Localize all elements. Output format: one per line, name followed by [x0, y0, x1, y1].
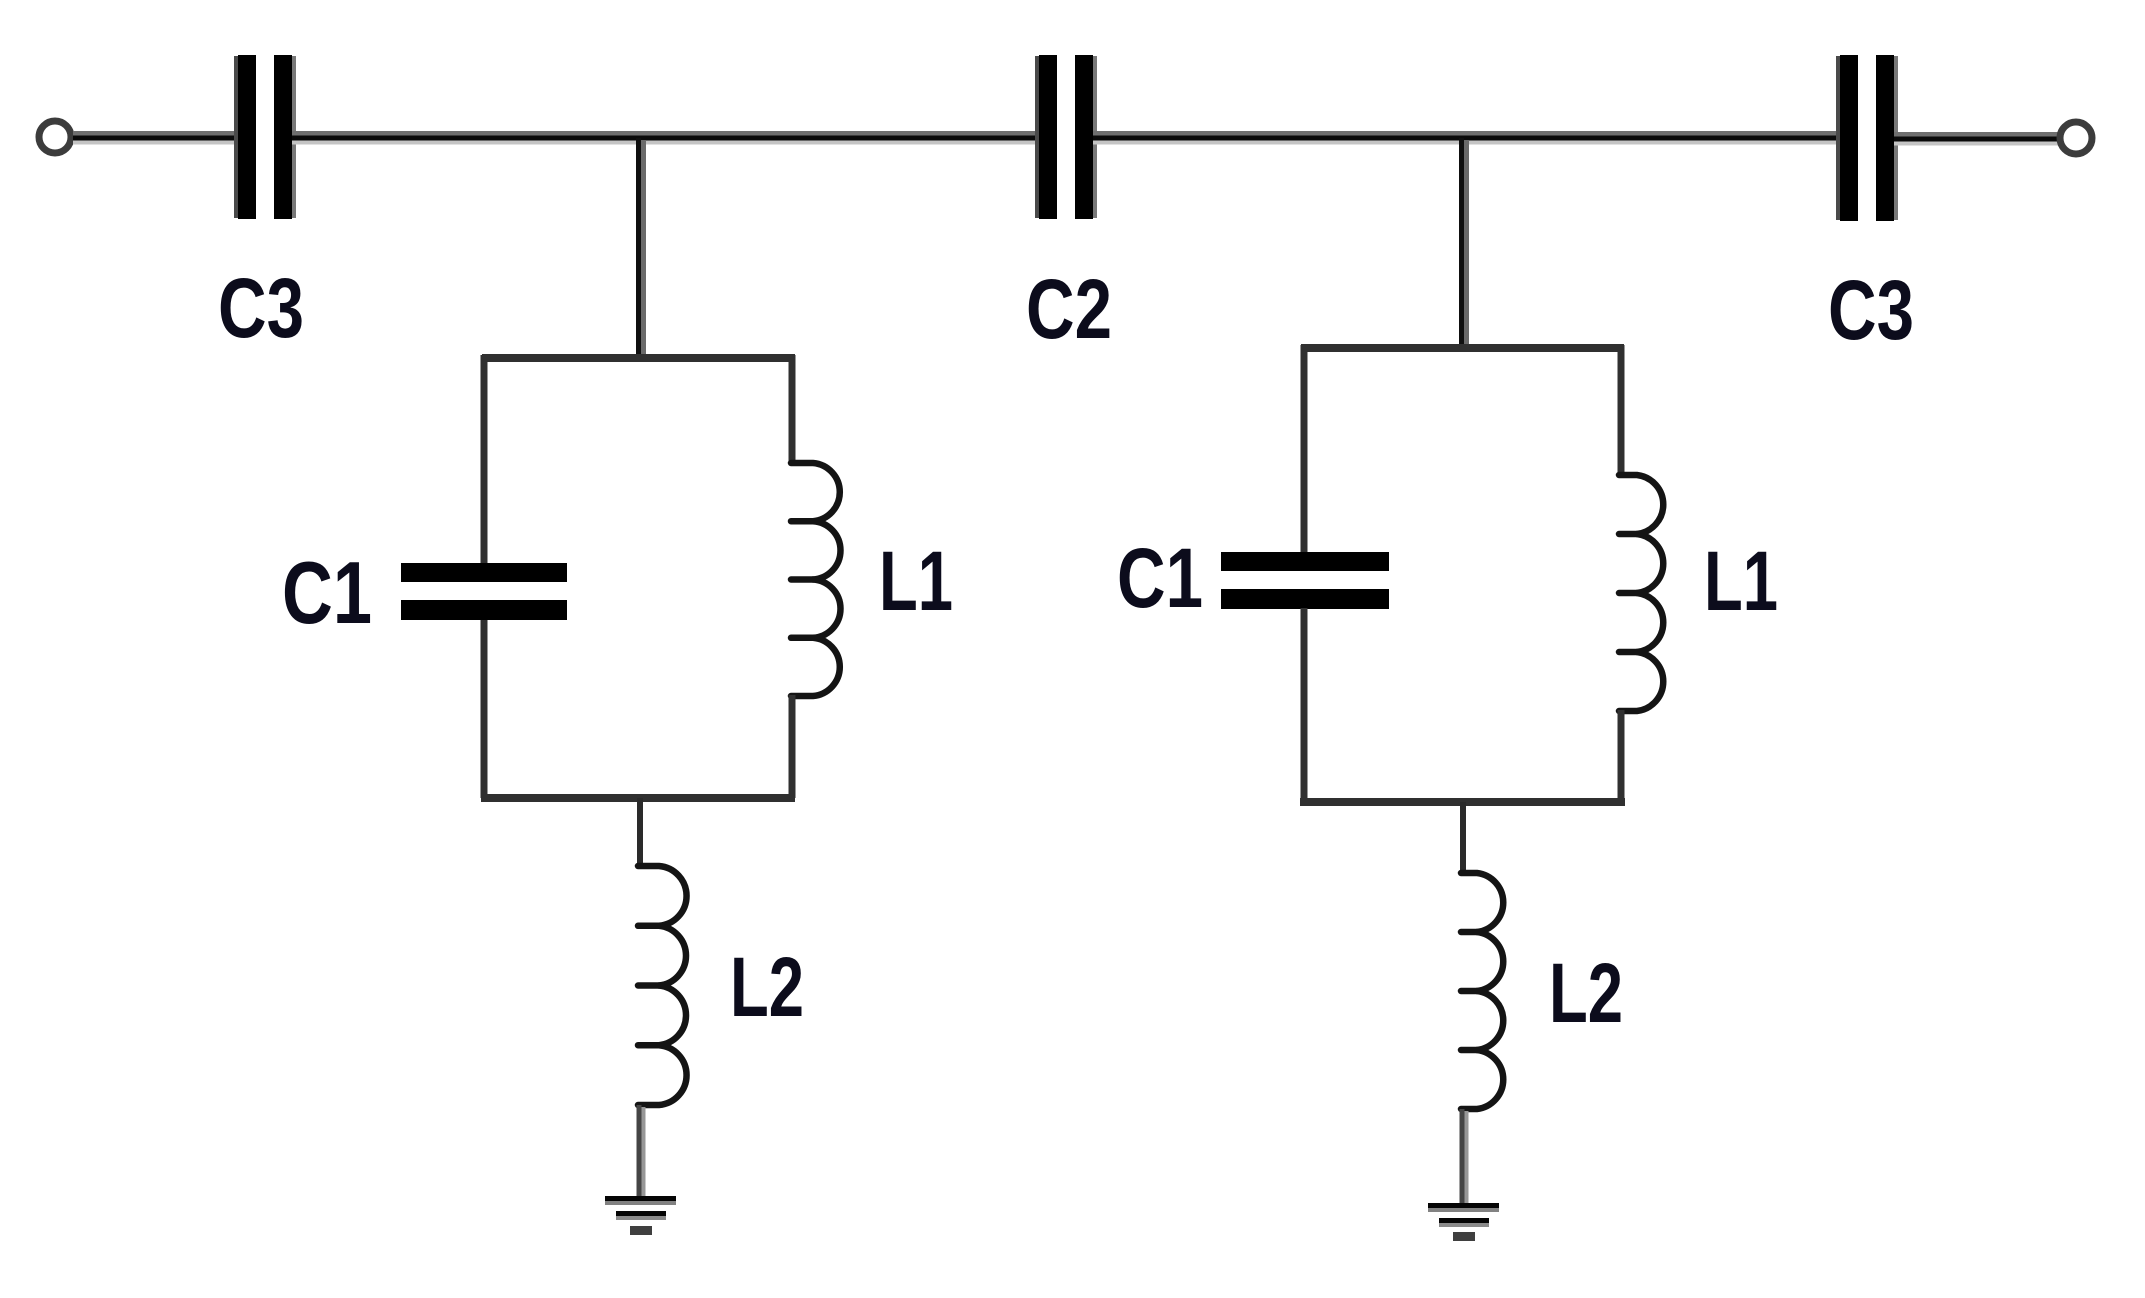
node A: junction drop wire to left tank	[639, 138, 644, 358]
wire: left tank left edge lower segment	[481, 620, 488, 798]
terminal OUT (right port circle)	[2060, 122, 2092, 154]
svg-text:L2: L2	[730, 940, 804, 1034]
wire: right tank bottom to L2 coil	[1460, 802, 1466, 874]
wire: right tank right edge upper segment	[1618, 345, 1625, 476]
ground (right)	[1428, 1203, 1499, 1241]
wire: L2 coil to ground (right)	[1462, 1109, 1467, 1203]
wire: left tank bottom to L2 coil	[637, 798, 643, 867]
wire: C3 right plate to C2 left plate (through node A)	[292, 134, 1039, 143]
capacitor C3 (right, series)	[1836, 55, 1898, 221]
wire: C2 right plate to C3 right plate (through node B)	[1093, 134, 1840, 143]
inductor L1 (right tank)	[1619, 475, 1663, 711]
wire: left tank right edge lower segment	[789, 695, 796, 798]
capacitor C1 (left tank, shunt)	[401, 563, 567, 620]
capacitor C1 (right tank, shunt)	[1221, 552, 1389, 609]
ground (left)	[605, 1196, 676, 1235]
svg-text:L2: L2	[1549, 946, 1623, 1040]
svg-text:C3: C3	[218, 261, 304, 355]
capacitor C2 (middle, series)	[1035, 55, 1097, 219]
svg-text:C2: C2	[1026, 262, 1112, 356]
inductor L1 (left tank)	[791, 463, 840, 696]
wire: right tank rectangle top edge	[1301, 344, 1624, 352]
terminal IN (left port circle)	[39, 121, 71, 153]
wire: right tank rectangle bottom edge	[1300, 798, 1625, 806]
wire: C3 right plate to right terminal	[1894, 135, 2058, 144]
svg-text:C1: C1	[282, 543, 372, 642]
svg-text:C3: C3	[1828, 263, 1914, 357]
inductor L2 (left shunt)	[638, 866, 687, 1105]
wire: left tank rectangle bottom edge	[481, 794, 795, 802]
node B: junction drop wire to right tank	[1462, 138, 1467, 348]
wire: left tank right edge upper segment	[789, 355, 796, 464]
wire: right tank left edge upper segment	[1301, 345, 1308, 553]
svg-text:C1: C1	[1117, 531, 1203, 625]
wire: L2 coil to ground (left)	[639, 1105, 644, 1196]
svg-text:L1: L1	[1704, 534, 1778, 628]
wire: right tank left edge lower segment	[1301, 608, 1308, 802]
capacitor C3 (left, series)	[234, 55, 296, 219]
wire: right tank right edge lower segment	[1618, 710, 1625, 802]
wire: left tank rectangle top edge	[482, 354, 795, 362]
wire: left terminal to C3 left plate	[73, 134, 238, 143]
wire: left tank left edge upper segment	[481, 355, 488, 564]
svg-text:L1: L1	[879, 534, 953, 628]
inductor L2 (right shunt)	[1461, 873, 1503, 1109]
